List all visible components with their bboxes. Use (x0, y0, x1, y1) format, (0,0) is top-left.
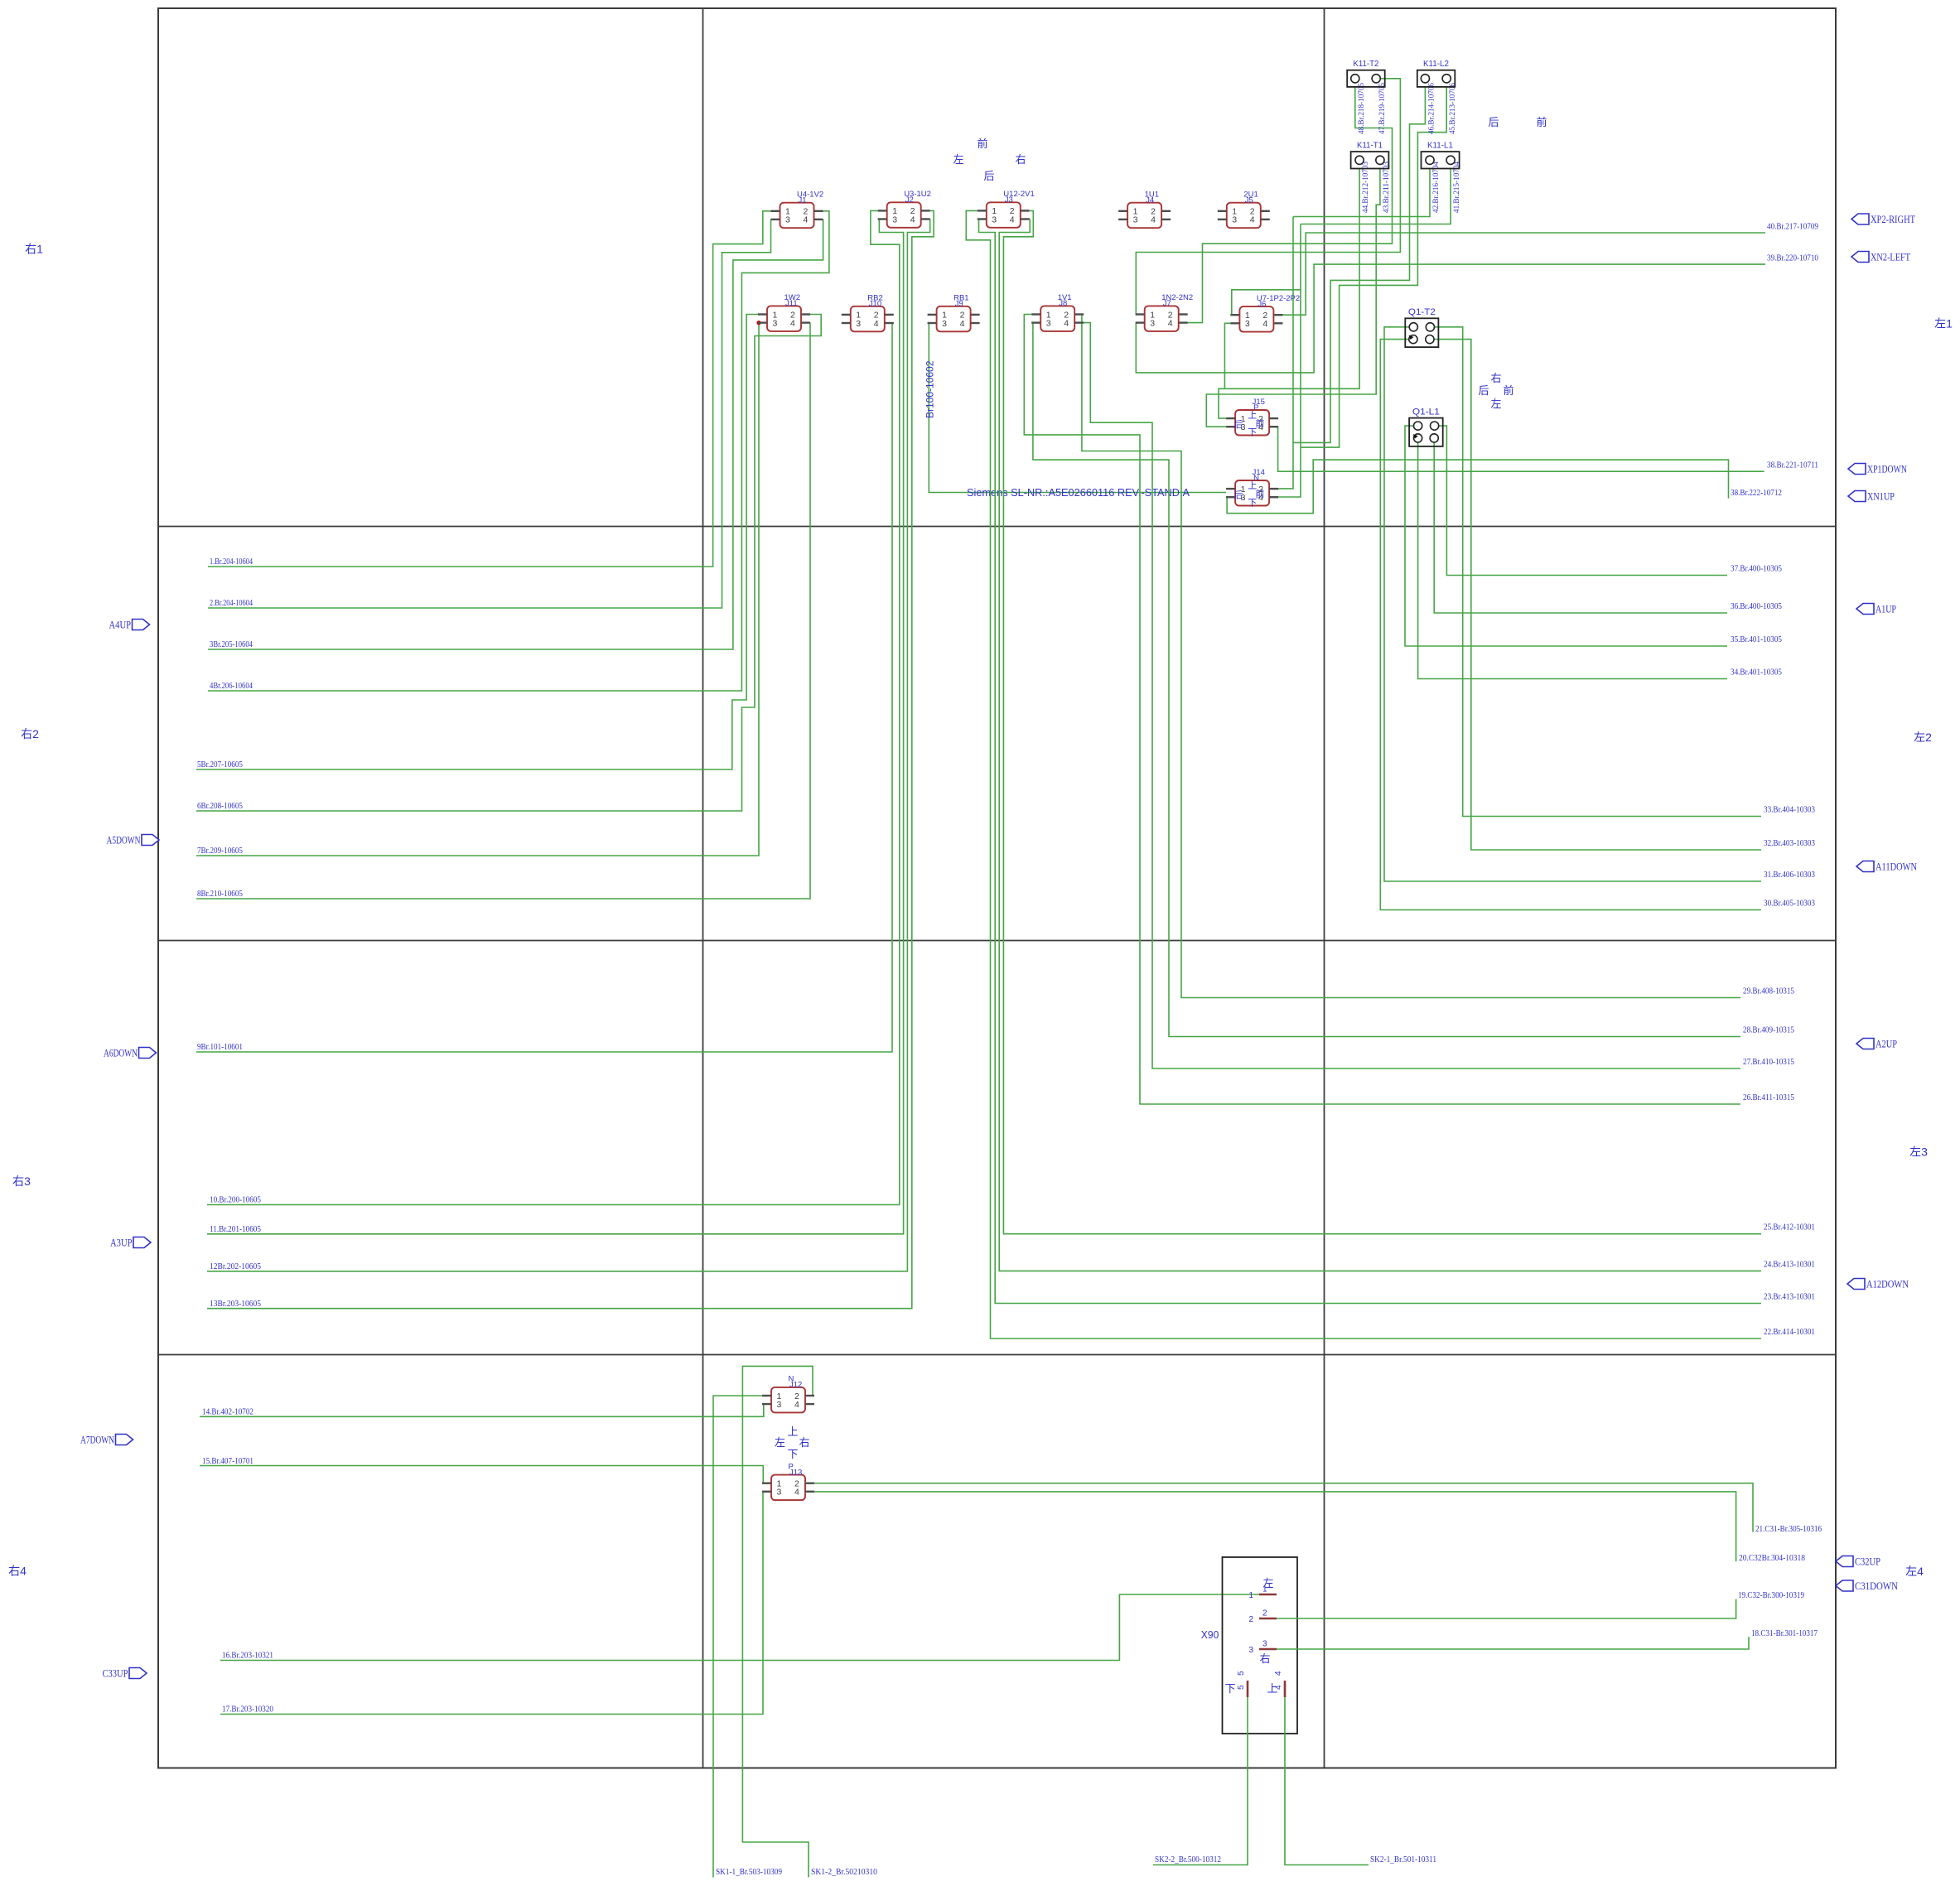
svg-text:3: 3 (773, 318, 778, 328)
svg-text:SK2-2_Br.500-10312: SK2-2_Br.500-10312 (1155, 1855, 1221, 1864)
wire 11.Br.201-10605 from J2 pin3 (207, 219, 904, 1234)
svg-text:26.Br.411-10315: 26.Br.411-10315 (1743, 1093, 1794, 1102)
svg-text:4: 4 (1250, 215, 1255, 225)
svg-text:3: 3 (1046, 318, 1051, 328)
svg-text:4: 4 (1274, 1671, 1283, 1676)
svg-text:前: 前 (1503, 384, 1513, 397)
svg-text:前: 前 (1536, 116, 1547, 128)
wire 12Br.202-10605 from J2 pin4 (207, 219, 930, 1271)
svg-text:右2: 右2 (21, 727, 39, 740)
svg-text:4: 4 (794, 1488, 799, 1498)
svg-text:A2UP: A2UP (1876, 1038, 1897, 1050)
X90 pin 4 (1284, 1681, 1287, 1697)
svg-text:J1: J1 (799, 196, 807, 205)
wire 31.Br.406-10303 from Q1-T2 upper-left (1384, 327, 1761, 881)
X90 pin 1 (1259, 1594, 1277, 1596)
connector J8 (1V1) (1031, 293, 1084, 331)
svg-text:3: 3 (1150, 318, 1155, 328)
svg-text:K11-T1: K11-T1 (1357, 141, 1383, 151)
port A7DOWN tag (116, 1435, 133, 1445)
wire 41.Br.215-10704 K11-L1 right (1301, 169, 1451, 224)
svg-text:7Br.209-10605: 7Br.209-10605 (197, 846, 243, 856)
svg-text:4: 4 (874, 319, 879, 329)
wire 28.Br.409-10315 from J8 pin3 (1031, 323, 1740, 1037)
svg-text:后: 后 (1233, 490, 1243, 500)
port A5DOWN tag (142, 835, 159, 846)
wire 3Br.205-10604 from J1 pin4 (208, 219, 823, 649)
svg-text:左1: 左1 (1934, 317, 1953, 330)
junction dot J11 pin3 (756, 321, 760, 325)
svg-text:39.Br.220-10710: 39.Br.220-10710 (1767, 253, 1818, 263)
wire 35.Br.401-10305 from Q1-L1 upper-left (1405, 426, 1727, 646)
svg-text:后: 后 (983, 170, 994, 182)
wire 19 X90 pin2 to right (1277, 1599, 1736, 1618)
wire 33.Br.404-10303 from Q1-T2 upper-right (1435, 327, 1762, 817)
port XN2-LEFT tag (1851, 252, 1869, 263)
svg-text:前: 前 (977, 137, 987, 150)
wire 27.Br.410-10315 from J8 pin4 (1084, 323, 1740, 1068)
wire 10.Br.200-10605 from J2 pin1 (207, 210, 900, 1204)
svg-text:27.Br.410-10315: 27.Br.410-10315 (1743, 1057, 1794, 1067)
svg-text:XP1DOWN: XP1DOWN (1867, 463, 1907, 475)
svg-text:6Br.208-10605: 6Br.208-10605 (197, 801, 243, 811)
svg-text:35.Br.401-10305: 35.Br.401-10305 (1731, 634, 1782, 644)
svg-text:A12DOWN: A12DOWN (1866, 1278, 1909, 1290)
wire 15.Br.407-10701 to J13 pin1 (200, 1466, 763, 1483)
relay contact block K11-T1 (1351, 152, 1389, 168)
wire 20 from J13 pin4 (814, 1492, 1736, 1561)
wire 2.Br.204-10604 from J1 pin3 (208, 219, 771, 608)
wire SK2-1 from X90 pin4 (1285, 1697, 1369, 1865)
svg-text:左2: 左2 (1914, 731, 1932, 744)
svg-text:18.C31-Br.301-10317: 18.C31-Br.301-10317 (1751, 1628, 1818, 1638)
svg-text:3: 3 (777, 1400, 782, 1410)
svg-text:K11-L2: K11-L2 (1423, 59, 1449, 69)
svg-text:J9: J9 (955, 300, 963, 309)
svg-text:45.Br.213-10706: 45.Br.213-10706 (1448, 83, 1456, 134)
svg-text:右: 右 (1259, 1652, 1270, 1665)
svg-text:3: 3 (856, 319, 861, 329)
svg-text:右1: 右1 (25, 243, 43, 256)
connector J7 (1N2-2N2) (1136, 293, 1194, 331)
svg-text:右4: 右4 (8, 1565, 27, 1578)
wire SK2-2 from X90 pin5 (1153, 1697, 1248, 1865)
svg-text:左: 左 (1490, 398, 1501, 410)
svg-text:J4: J4 (1146, 196, 1154, 205)
svg-text:J5: J5 (1245, 196, 1253, 205)
svg-text:J12: J12 (789, 1381, 802, 1390)
svg-text:10.Br.200-10605: 10.Br.200-10605 (210, 1195, 261, 1205)
X90 pin 5 (1247, 1681, 1249, 1697)
port A11DOWN tag (1856, 861, 1874, 872)
relay contact block Q1-L1 (1409, 418, 1443, 446)
svg-text:C32UP: C32UP (1855, 1556, 1880, 1568)
svg-text:5Br.207-10605: 5Br.207-10605 (197, 760, 243, 769)
wire 30.Br.405-10303 from Q1-T2 lower-left (1380, 340, 1761, 910)
Q1-L1 polarity mark (1413, 434, 1418, 439)
connector J10 (RB2) (842, 294, 894, 332)
svg-text:3: 3 (1232, 215, 1237, 225)
svg-text:37.Br.400-10305: 37.Br.400-10305 (1731, 564, 1782, 574)
svg-text:左: 左 (1262, 1577, 1273, 1589)
wire 44.Br.212-10703 K11-T1 left to J15 pin1 (1219, 169, 1359, 419)
svg-text:32.Br.403-10303: 32.Br.403-10303 (1764, 838, 1815, 848)
connector J14 (N) (1226, 468, 1278, 506)
connector J2 (U3-1U2) (878, 190, 931, 228)
svg-text:3: 3 (1262, 1640, 1267, 1649)
svg-text:19.C32-Br.300-10319: 19.C32-Br.300-10319 (1738, 1590, 1804, 1600)
svg-text:28.Br.409-10315: 28.Br.409-10315 (1743, 1025, 1794, 1035)
svg-text:4: 4 (804, 215, 809, 225)
svg-text:20.C32Br.304-10318: 20.C32Br.304-10318 (1739, 1553, 1805, 1563)
svg-text:X90: X90 (1201, 1628, 1219, 1641)
svg-text:46.Br.214-10706: 46.Br.214-10706 (1427, 83, 1435, 134)
frame column divider 1 (702, 8, 704, 1768)
svg-text:J8: J8 (1059, 299, 1067, 308)
svg-text:3: 3 (777, 1488, 782, 1498)
svg-text:后: 后 (1488, 116, 1499, 128)
svg-text:后: 后 (1233, 419, 1243, 430)
svg-text:8Br.210-10605: 8Br.210-10605 (197, 889, 243, 899)
wire from J9 pin3 to J14 pin1 (Br100-10602) (928, 323, 1227, 493)
svg-text:左3: 左3 (1909, 1146, 1928, 1159)
svg-text:23.Br.413-10301: 23.Br.413-10301 (1764, 1292, 1815, 1302)
svg-text:1.Br.204-10604: 1.Br.204-10604 (210, 557, 253, 567)
wire 22.Br.414-10301 from J3 pin1 (966, 210, 1761, 1339)
wire 6Br.208-10605 from J11 pin2 (196, 315, 821, 812)
wire 32.Br.403-10303 from Q1-T2 lower-right (1434, 340, 1761, 850)
svg-text:33.Br.404-10303: 33.Br.404-10303 (1764, 805, 1815, 815)
Q1-T2 polarity mark (1409, 335, 1414, 340)
svg-text:3: 3 (1133, 215, 1138, 225)
svg-text:K11-L1: K11-L1 (1427, 141, 1453, 151)
svg-text:3: 3 (785, 215, 790, 225)
wire 14.Br.402-10702 to J12 pin3 (200, 1404, 764, 1416)
svg-text:A5DOWN: A5DOWN (107, 834, 141, 847)
frame row divider 1 (158, 526, 1836, 528)
svg-text:左4: 左4 (1905, 1565, 1924, 1578)
wire 1.Br.204-10604 from J1 pin1 (208, 211, 771, 567)
wire J6 pin3 jog to net 44 (1224, 323, 1230, 388)
port A1UP tag (1856, 604, 1874, 615)
svg-text:A7DOWN: A7DOWN (80, 1434, 114, 1446)
wire 45.Br.213-10706 K11-L2 right (1301, 87, 1446, 447)
svg-text:4: 4 (1010, 215, 1015, 224)
svg-text:4: 4 (910, 215, 915, 224)
wire 5Br.207-10605 from J11 pin1 (196, 315, 758, 770)
svg-text:3Br.205-10604: 3Br.205-10604 (210, 639, 253, 649)
connector J13 (P) (762, 1462, 814, 1500)
svg-text:XP2-RIGHT: XP2-RIGHT (1871, 213, 1915, 225)
svg-text:30.Br.405-10303: 30.Br.405-10303 (1764, 899, 1815, 909)
svg-text:21.C31-Br.305-10316: 21.C31-Br.305-10316 (1755, 1524, 1822, 1534)
svg-text:40.Br.217-10709: 40.Br.217-10709 (1767, 222, 1818, 232)
wire 34.Br.401-10305 from Q1-L1 lower-left (1418, 442, 1727, 679)
svg-text:4: 4 (1064, 318, 1069, 328)
svg-text:J13: J13 (789, 1468, 802, 1477)
svg-text:A6DOWN: A6DOWN (104, 1047, 138, 1059)
svg-text:2.Br.204-10604: 2.Br.204-10604 (210, 598, 253, 608)
relay contact block K11-T2 (1347, 70, 1385, 87)
port C31DOWN tag (1836, 1580, 1853, 1591)
svg-text:下: 下 (1248, 428, 1257, 438)
frame column divider 2 (1324, 8, 1325, 1768)
wire 9Br.101-10601 from J10 pin4 (196, 323, 894, 1052)
wire 7Br.209-10605 from J11 pin3 (196, 323, 759, 856)
wire 25.Br.412-10301 from J3 pin2 (1003, 210, 1761, 1233)
relay contact block K11-L1 (1422, 152, 1460, 168)
svg-text:Siemens SL-NR.:A5E02660116 REV: Siemens SL-NR.:A5E02660116 REV.-STAND:A (967, 487, 1190, 499)
svg-text:22.Br.414-10301: 22.Br.414-10301 (1764, 1327, 1815, 1337)
wire 21 from J13 pin2 (814, 1483, 1753, 1532)
svg-text:14.Br.402-10702: 14.Br.402-10702 (202, 1407, 253, 1417)
svg-text:SK2-1_Br.501-10311: SK2-1_Br.501-10311 (1370, 1855, 1436, 1864)
wire 13Br.203-10605 from J2 pin2 (207, 210, 934, 1308)
frame outer border (158, 8, 1836, 1768)
svg-text:右: 右 (1015, 153, 1026, 166)
connector J6 (U7-1P2-2P2) (1230, 294, 1300, 332)
svg-text:3: 3 (1245, 319, 1250, 329)
svg-text:4: 4 (794, 1400, 799, 1410)
wire 47.Br.219-10705 K11-T2 right to J7 pin1 (1136, 79, 1401, 315)
svg-text:左: 左 (775, 1436, 785, 1449)
connector J9 (RB1) (928, 294, 980, 332)
svg-text:17.Br.203-10320: 17.Br.203-10320 (222, 1705, 273, 1715)
svg-text:11.Br.201-10605: 11.Br.201-10605 (210, 1224, 261, 1234)
svg-text:3: 3 (992, 215, 997, 224)
svg-text:C31DOWN: C31DOWN (1855, 1580, 1899, 1592)
port C33UP tag (129, 1668, 147, 1679)
svg-text:SK1-1_Br.503-10309: SK1-1_Br.503-10309 (716, 1867, 782, 1877)
wire 4Br.206-10604 from J1 pin2 (208, 211, 829, 691)
connector J4 (1U1) (1118, 191, 1171, 229)
svg-text:C33UP: C33UP (103, 1667, 128, 1680)
svg-text:Br100-10602: Br100-10602 (924, 360, 936, 418)
svg-text:上: 上 (1267, 1682, 1277, 1695)
wire 17.Br.203-10320 to J13 pin3 (220, 1492, 763, 1715)
svg-text:36.Br.400-10305: 36.Br.400-10305 (1731, 601, 1782, 611)
svg-text:右: 右 (1490, 372, 1501, 384)
svg-text:25.Br.412-10301: 25.Br.412-10301 (1764, 1223, 1815, 1232)
svg-text:J2: J2 (905, 195, 914, 205)
wire 29.Br.408-10315 from J8 pin2 (1082, 315, 1740, 998)
connector J3 (U12-2V1) (978, 190, 1035, 228)
svg-text:SK1-2_Br.50210310: SK1-2_Br.50210310 (811, 1867, 877, 1877)
svg-text:9Br.101-10601: 9Br.101-10601 (197, 1042, 243, 1052)
svg-text:J3: J3 (1005, 195, 1013, 205)
wire 36.Br.400-10305 from Q1-L1 lower-right (1434, 442, 1727, 613)
wire 8Br.210-10605 from J11 pin4 (196, 323, 810, 899)
wire 46.Br.214-10706 K11-L2 left (1293, 87, 1425, 443)
svg-text:下: 下 (1248, 499, 1257, 509)
wire 26.Br.411-10315 from J8 pin1 (1024, 315, 1740, 1105)
wire 39.Br.220-10710 from J7 pin3 (1136, 264, 1765, 373)
connector X90 box (1223, 1557, 1298, 1734)
svg-text:48.Br.218-10705: 48.Br.218-10705 (1357, 83, 1365, 134)
wire 42.Br.216-10704 K11-L1 left (1293, 169, 1430, 217)
svg-text:4: 4 (1262, 319, 1267, 329)
wire J12 pin1 to SK1-1 (713, 1396, 762, 1878)
port XN1UP tag (1848, 491, 1866, 502)
relay contact block Q1-T2 (1405, 318, 1438, 347)
svg-text:3: 3 (942, 319, 947, 329)
wire 24.Br.413-10301 from J3 pin4 (999, 219, 1761, 1271)
svg-text:下: 下 (1224, 1682, 1235, 1695)
svg-text:38.Br.221-10711: 38.Br.221-10711 (1767, 461, 1818, 470)
svg-text:38.Br.222-10712: 38.Br.222-10712 (1731, 488, 1782, 498)
svg-text:5: 5 (1237, 1671, 1246, 1676)
svg-text:47.Br.219-10705: 47.Br.219-10705 (1378, 83, 1386, 134)
svg-text:右: 右 (799, 1436, 809, 1449)
frame row divider 2 (158, 940, 1836, 942)
svg-text:2: 2 (1248, 1615, 1253, 1624)
svg-text:J10: J10 (869, 300, 881, 309)
svg-text:4: 4 (1151, 215, 1156, 225)
port A4UP tag (133, 620, 150, 630)
svg-text:12Br.202-10605: 12Br.202-10605 (210, 1261, 261, 1271)
wire 38.Br.221-10711 from J15 pin4 (1278, 427, 1764, 471)
svg-text:29.Br.408-10315: 29.Br.408-10315 (1743, 986, 1794, 996)
svg-text:左: 左 (953, 153, 963, 166)
relay contact block K11-L2 (1417, 70, 1456, 87)
port XP1DOWN tag (1848, 464, 1866, 475)
connector J5 (2U1) (1218, 191, 1270, 229)
wire 37.Br.400-10305 from Q1-L1 upper-right (1439, 426, 1727, 575)
svg-text:后: 后 (1478, 384, 1489, 397)
X90 pin 2 (1259, 1618, 1277, 1620)
wire 43.Br.211-10703 K11-T1 right to J15 pin3 (1206, 169, 1380, 427)
svg-text:J7: J7 (1163, 299, 1171, 308)
svg-text:31.Br.406-10303: 31.Br.406-10303 (1764, 870, 1815, 880)
svg-text:Q1-L1: Q1-L1 (1412, 408, 1440, 417)
svg-text:13Br.203-10605: 13Br.203-10605 (210, 1299, 261, 1309)
wire 38.Br.222-10712 from J14 pin3 (1226, 460, 1728, 514)
svg-text:XN2-LEFT: XN2-LEFT (1871, 251, 1910, 263)
wire 23.Br.413-10301 from J3 pin3 (978, 219, 1761, 1304)
wire 40.Br.217-10709 from J6 pin2 (1282, 233, 1765, 315)
svg-text:A1UP: A1UP (1876, 603, 1896, 615)
port A3UP tag (133, 1237, 151, 1248)
wire 48.Br.218-10705 K11-T2 left to J7 pin4 (1187, 87, 1392, 323)
wire J6 pin1 to net 41/45 (1230, 290, 1301, 315)
wire net 41/45 drop to J14 pin4 (1278, 224, 1301, 498)
svg-text:4Br.206-10604: 4Br.206-10604 (210, 681, 253, 691)
svg-text:A3UP: A3UP (110, 1237, 133, 1249)
port A6DOWN tag (139, 1048, 157, 1059)
wire J12 pin2 to SK1-2 (742, 1366, 814, 1877)
svg-text:4: 4 (790, 318, 795, 328)
svg-text:J6: J6 (1258, 300, 1266, 309)
port A2UP tag (1856, 1039, 1874, 1049)
X90 pin 3 (1259, 1648, 1277, 1651)
port C32UP tag (1836, 1556, 1853, 1567)
svg-text:Q1-T2: Q1-T2 (1408, 307, 1436, 317)
svg-text:15.Br.407-10701: 15.Br.407-10701 (202, 1456, 253, 1466)
connector J12 (N) (762, 1375, 814, 1413)
svg-text:5: 5 (1237, 1685, 1246, 1690)
svg-text:16.Br.203-10321: 16.Br.203-10321 (222, 1651, 273, 1661)
svg-text:2: 2 (1262, 1609, 1267, 1618)
svg-text:A11DOWN: A11DOWN (1876, 861, 1917, 873)
svg-text:1: 1 (1248, 1591, 1253, 1600)
wire net 42/46 drop to J14 pin2 (1278, 217, 1293, 489)
svg-text:4: 4 (960, 319, 965, 329)
svg-text:A4UP: A4UP (109, 619, 132, 631)
svg-text:24.Br.413-10301: 24.Br.413-10301 (1764, 1260, 1815, 1270)
svg-text:34.Br.401-10305: 34.Br.401-10305 (1731, 668, 1782, 678)
svg-text:右3: 右3 (12, 1175, 31, 1188)
connector J1 (U4-1V2) (771, 191, 824, 229)
svg-text:K11-T2: K11-T2 (1353, 59, 1378, 69)
connector J15 (P) (1226, 398, 1278, 436)
svg-text:上: 上 (787, 1425, 798, 1438)
svg-text:4: 4 (1168, 318, 1173, 328)
wire 18 X90 pin3 to right (1277, 1637, 1749, 1649)
port A12DOWN tag (1847, 1279, 1865, 1290)
svg-text:下: 下 (787, 1448, 798, 1460)
svg-text:J11: J11 (785, 299, 798, 308)
svg-text:3: 3 (1248, 1646, 1253, 1655)
port XP2-RIGHT tag (1851, 214, 1869, 224)
svg-text:3: 3 (892, 215, 897, 224)
connector J11 (1W2) (758, 293, 810, 331)
wire 16.Br.203-10321 to X90 pin1 (220, 1594, 1259, 1661)
svg-text:XN1UP: XN1UP (1867, 490, 1895, 503)
frame row divider 3 (158, 1354, 1836, 1356)
